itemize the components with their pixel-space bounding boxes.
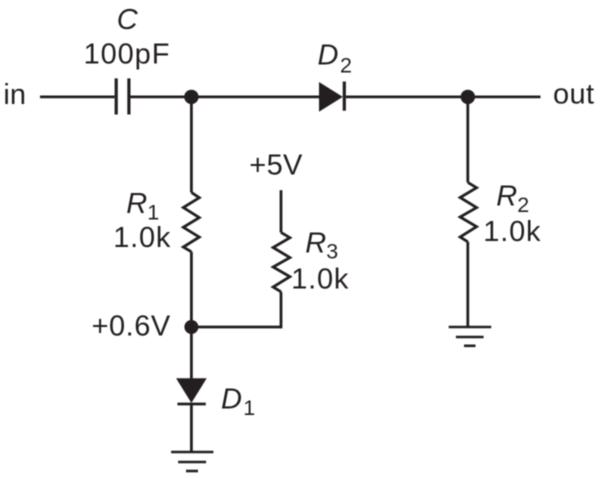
wire: node B down to resistor R2: [466, 97, 469, 182]
label R1: [126, 188, 159, 225]
node label "out": [553, 78, 594, 110]
svg-text:1.0k: 1.0k: [113, 222, 171, 254]
wire: resistor R1 to node C (+0.6V net): [190, 252, 193, 327]
svg-text:2: 2: [517, 193, 529, 217]
svg-text:out: out: [553, 78, 594, 110]
wire: +5V supply down to resistor R3: [280, 190, 283, 232]
svg-text:R: R: [305, 228, 326, 260]
svg-text:in: in: [3, 79, 26, 111]
node C junction dot (+0.6V net): [184, 320, 198, 334]
resistor R1 (zigzag): [183, 192, 199, 251]
label C (capacitor designator): [117, 4, 139, 36]
wire: resistor R3 down to +0.6V horizontal wire: [280, 292, 283, 329]
svg-text:D: D: [318, 40, 339, 72]
wire: diode D1 cathode to ground: [190, 404, 193, 452]
label R2: [496, 181, 529, 217]
node A junction dot (in/R1/D2 net): [184, 90, 198, 104]
wire: node C to R3 branch (horizontal): [191, 326, 281, 329]
svg-text:1: 1: [147, 201, 159, 225]
resistor R3 (zigzag): [273, 232, 290, 291]
ground symbol (under R2): [449, 327, 492, 346]
svg-text:1.0k: 1.0k: [483, 216, 541, 248]
ground symbol (under D1): [171, 452, 213, 471]
svg-text:2: 2: [340, 53, 352, 77]
svg-text:+5V: +5V: [249, 149, 303, 181]
wire: node C down to diode D1 anode: [190, 327, 193, 379]
diode D2 (triangle anode, pointing right): [319, 82, 343, 112]
node label "in": [3, 79, 26, 111]
node B junction dot (out/R2 net): [461, 90, 475, 104]
wire: resistor R2 down to ground: [466, 242, 469, 327]
svg-text:1.0k: 1.0k: [291, 264, 349, 296]
label D1: [221, 384, 255, 421]
svg-text:+0.6V: +0.6V: [92, 311, 171, 343]
wire: diode D2 cathode to "out" (through node B): [346, 96, 541, 99]
resistor R2 (zigzag): [460, 182, 477, 241]
svg-text:C: C: [117, 4, 139, 36]
wire: node A down to resistor R1: [190, 97, 193, 192]
svg-text:D: D: [221, 384, 242, 416]
svg-text:1: 1: [243, 396, 255, 420]
diode D1 cathode bar: [177, 403, 205, 406]
diode D1 (triangle anode, pointing down): [176, 378, 207, 403]
svg-text:100pF: 100pF: [84, 39, 171, 71]
diode D2 cathode bar: [343, 82, 346, 111]
power label +5V: [249, 149, 303, 181]
wire: capacitor to diode D2 anode (through node A): [131, 96, 320, 99]
svg-text:R: R: [496, 181, 517, 213]
value label 1.0k (R3): [291, 264, 349, 296]
value label 1.0k (R1): [113, 222, 171, 254]
capacitor C (plates): [116, 78, 129, 114]
node label +0.6V: [92, 311, 171, 343]
label R3: [305, 228, 338, 264]
value label 1.0k (R2): [483, 216, 541, 248]
label D2: [318, 40, 352, 78]
svg-text:R: R: [126, 188, 147, 220]
wire: input lead from "in" to capacitor C: [40, 96, 115, 99]
svg-text:3: 3: [326, 240, 338, 264]
value label 100pF: [84, 39, 171, 71]
